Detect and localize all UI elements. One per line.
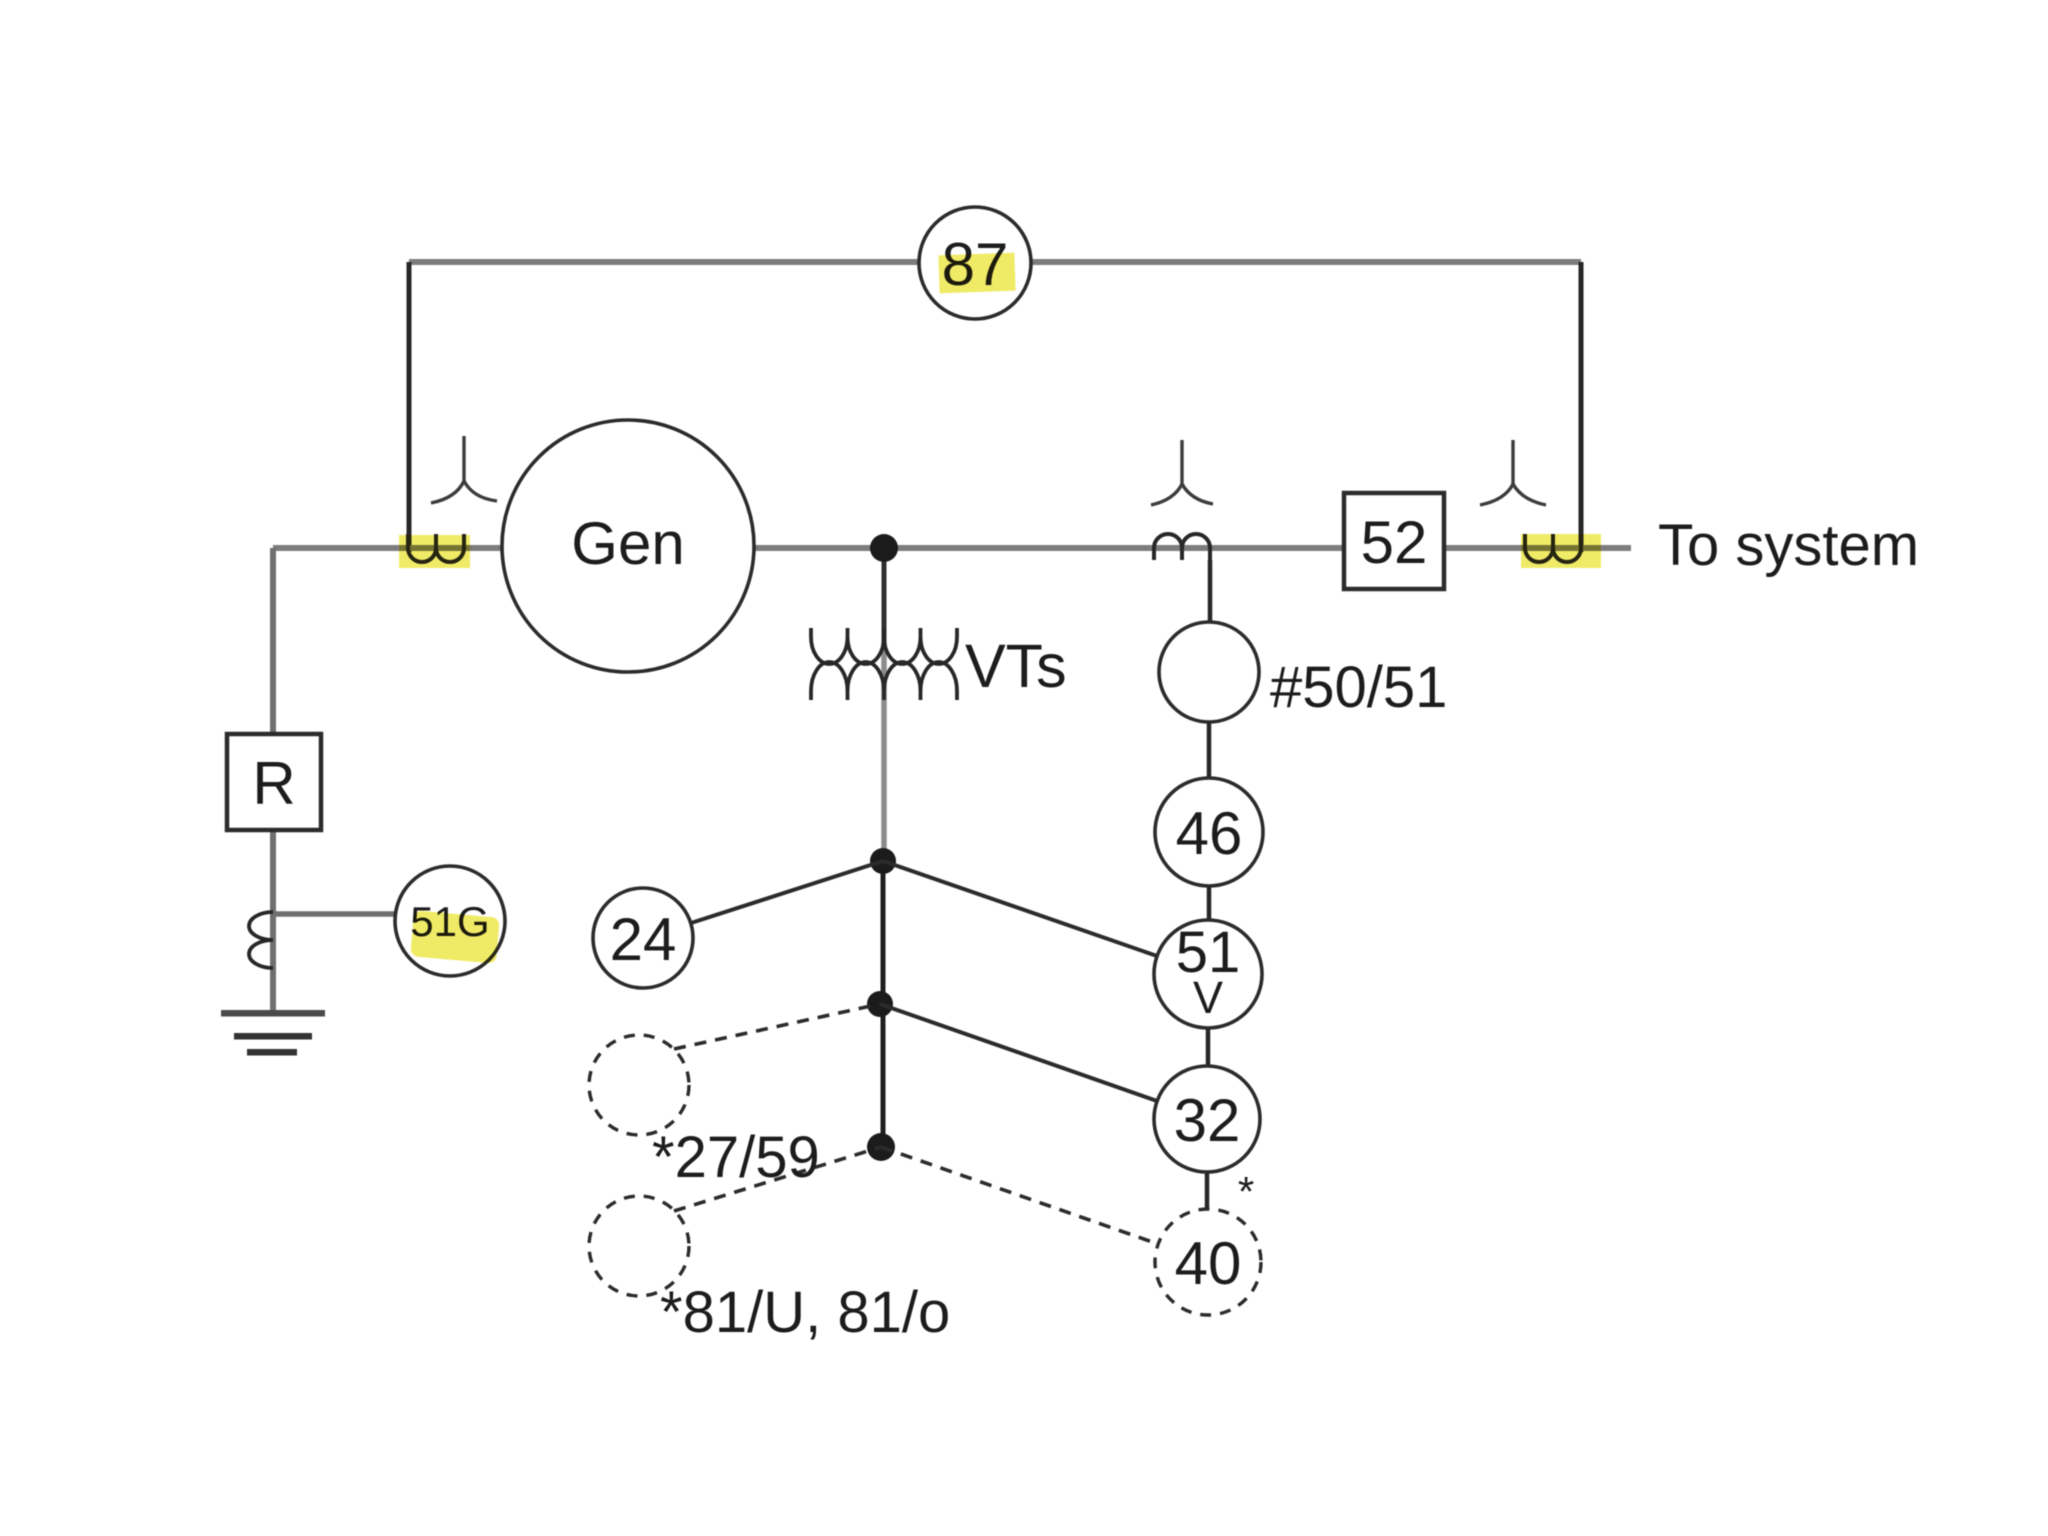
- svg-text:*27/59: *27/59: [652, 1125, 820, 1190]
- node: VT junction 1: [870, 848, 896, 874]
- wire: 51V to 32: [1206, 1028, 1211, 1066]
- svg-text:24: 24: [610, 906, 677, 973]
- svg-text:R: R: [252, 750, 295, 817]
- wire: main generator bus: [273, 545, 1631, 551]
- highlight on 87: [938, 253, 1015, 294]
- svg-text:#50/51: #50/51: [1270, 655, 1447, 720]
- relay 40 (loss of field, dashed/future): [1155, 1209, 1261, 1315]
- svg-text:46: 46: [1176, 800, 1243, 867]
- relay 24 (volts/hertz): [593, 888, 693, 988]
- VTs (voltage transformers): [811, 628, 957, 700]
- svg-text:52: 52: [1361, 509, 1428, 576]
- wire: junction1 to relay 24: [691, 861, 883, 923]
- dashed circle: future relay 27/59: [589, 1035, 689, 1135]
- highlight on left CT: [399, 535, 470, 568]
- relay 87 (differential): [919, 207, 1031, 319]
- highlight on 51G: [410, 910, 500, 963]
- wire: generator neutral lead (left vertical): [270, 548, 276, 1012]
- wire: 32 to 40: [1205, 1172, 1210, 1209]
- wire: neutral CT to relay 51G: [273, 911, 398, 917]
- CT right (system-side CT): [1525, 534, 1581, 562]
- relay #50/51 (instantaneous/time overcurrent): [1159, 622, 1259, 722]
- wire: dashed, junction3 to relay 40: [881, 1147, 1158, 1244]
- node: VT junction 3: [867, 1133, 895, 1161]
- dashed circle: future relay 81: [589, 1196, 689, 1296]
- node: bus VT tap junction: [870, 534, 898, 562]
- resistor R (grounding resistor): [227, 734, 321, 830]
- svg-text:V: V: [1193, 972, 1223, 1023]
- svg-text:VTs: VTs: [965, 632, 1067, 700]
- relay 51V (voltage-restrained overcurrent): [1154, 920, 1262, 1028]
- node: VT junction 2: [867, 991, 893, 1017]
- neutral CT (ground CT coil): [249, 912, 273, 968]
- wire: junction1 to relay 51V: [883, 861, 1157, 956]
- relay 46 (negative sequence): [1155, 778, 1263, 886]
- svg-text:To system: To system: [1658, 513, 1919, 578]
- CT left (generator neutral-side CT): [408, 534, 464, 562]
- wire: 46 to 51V: [1207, 886, 1212, 920]
- wire: top differential CT loop: [409, 262, 1581, 552]
- breaker 52: [1344, 493, 1444, 589]
- wire: 50/51 to 46: [1207, 722, 1212, 778]
- wire: dashed, future 27/59 to junction2: [674, 1004, 880, 1049]
- svg-text:Gen: Gen: [571, 510, 684, 577]
- wire: junction2 to relay 32: [880, 1004, 1157, 1101]
- relay 32 (reverse power): [1154, 1066, 1260, 1172]
- wye symbol left CT: [431, 436, 497, 503]
- wye symbol right CT: [1480, 440, 1546, 505]
- CT middle (line-side CT for 50/51 chain): [1154, 534, 1210, 560]
- ground symbol: [221, 1010, 325, 1056]
- wire: dashed, future 81 to junction3: [674, 1147, 881, 1211]
- relay 51G (ground overcurrent): [395, 866, 505, 976]
- svg-text:*81/U, 81/o: *81/U, 81/o: [660, 1280, 950, 1345]
- svg-text:40: 40: [1175, 1230, 1242, 1297]
- highlight on right CT: [1521, 534, 1601, 568]
- wye symbol middle CT: [1151, 440, 1213, 505]
- svg-text:*: *: [1238, 1168, 1254, 1215]
- wire: VT tap vertical: [883, 548, 884, 1147]
- generator Gen: [502, 420, 754, 672]
- svg-text:32: 32: [1174, 1087, 1241, 1154]
- wire: middle CT to relay 50/51: [1208, 560, 1213, 622]
